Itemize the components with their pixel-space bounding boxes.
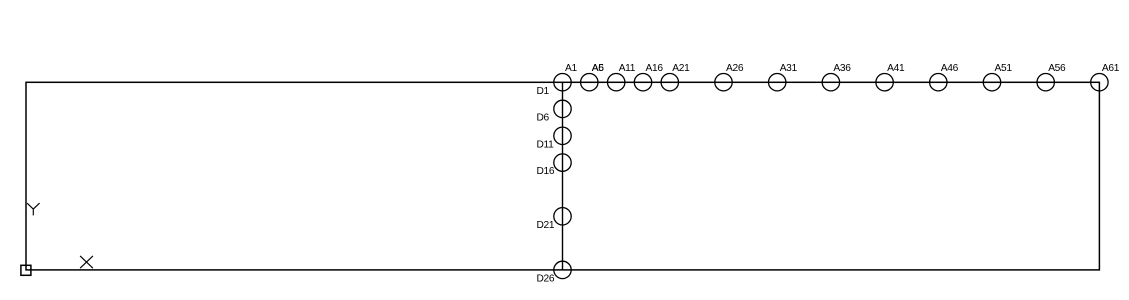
- svg-text:A51: A51: [995, 63, 1013, 74]
- pad A61: [1091, 74, 1108, 91]
- pad A1 / D1: [554, 74, 571, 91]
- Y axis letter: [27, 203, 39, 215]
- svg-text:A31: A31: [780, 63, 798, 74]
- pad D16: [554, 154, 571, 171]
- pad D21: [554, 208, 571, 225]
- svg-text:A46: A46: [941, 63, 959, 74]
- svg-text:D6: D6: [537, 113, 550, 124]
- pad A51: [983, 74, 1000, 91]
- svg-text:D11: D11: [537, 139, 555, 150]
- pad D26: [554, 261, 571, 278]
- pad A41: [876, 74, 893, 91]
- pad D11: [554, 127, 571, 144]
- pad A31: [769, 74, 786, 91]
- svg-text:A56: A56: [1048, 63, 1066, 74]
- X axis letter: [80, 256, 93, 268]
- svg-text:A16: A16: [646, 63, 664, 74]
- wire: D-column vertical line from pad A1/D1 down to pad D26: [562, 82, 564, 270]
- origin marker square: [21, 265, 31, 275]
- svg-text:D26: D26: [537, 274, 555, 285]
- pad A11: [608, 74, 625, 91]
- svg-text:A41: A41: [887, 63, 905, 74]
- svg-text:D21: D21: [537, 220, 555, 231]
- pad A26: [715, 74, 732, 91]
- svg-text:D16: D16: [537, 166, 555, 177]
- pad D6: [554, 100, 571, 117]
- svg-text:A6: A6: [592, 63, 604, 74]
- svg-text:A1: A1: [565, 63, 577, 74]
- svg-text:A26: A26: [726, 63, 744, 74]
- pad A56: [1037, 74, 1054, 91]
- pad A16: [634, 74, 651, 91]
- pad A36: [822, 74, 839, 91]
- svg-text:A21: A21: [672, 63, 690, 74]
- pad A46: [930, 74, 947, 91]
- pad A21: [661, 74, 678, 91]
- svg-text:A11: A11: [619, 63, 636, 74]
- pad A5/A6: [581, 74, 598, 91]
- board outline: [26, 82, 1099, 270]
- svg-text:D1: D1: [537, 86, 550, 97]
- svg-text:A61: A61: [1102, 63, 1120, 74]
- svg-text:A36: A36: [833, 63, 851, 74]
